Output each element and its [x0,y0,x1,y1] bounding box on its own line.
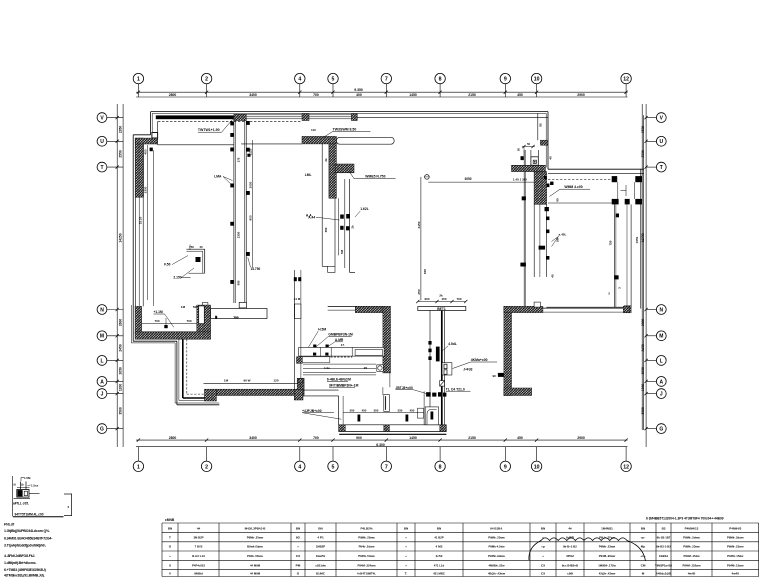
svg-text:M: M [642,571,645,575]
svg-text:G: G [100,427,104,433]
door frame in bottom room [384,395,390,412]
svg-text:A.MR: A.MR [335,338,344,342]
balcony bottom line seg2 [241,143,302,145]
svg-text:JBTJ8+c00: JBTJ8+c00 [396,386,413,390]
svg-text:LML: LML [305,173,312,177]
kitchen top hatched band [355,306,383,312]
step thick wall line horizontal [183,397,205,399]
table header cells [168,527,742,531]
svg-text:9cs B4B9+B: 9cs B4B9+B [562,563,578,567]
svg-text:4 P1: 4 P1 [317,535,324,539]
svg-text:BN: BN [641,527,645,531]
svg-text:9dBP: 9dBP [566,535,574,539]
svg-text:P4M94/3: P4M94/3 [729,527,741,531]
table body cells [169,535,745,575]
svg-text:1550: 1550 [635,236,639,243]
kitchen counter inner panel [355,350,383,356]
C wall side mark [493,373,504,378]
svg-text:TW3SWM 8.50: TW3SWM 8.50 [333,128,357,132]
svg-text:4KMa+c00: 4KMa+c00 [471,358,488,362]
svg-text:700: 700 [154,319,159,323]
svg-text:5M: 5M [556,237,560,242]
svg-text:P9Mk-.25ww: P9Mk-.25ww [358,535,375,539]
svg-text:6.300: 6.300 [376,443,385,447]
svg-text:5M: 5M [193,305,198,309]
svg-text:3400: 3400 [249,93,257,97]
stud right of column at dashed start [550,182,553,185]
rotated dims right rooms [556,198,622,289]
svg-text:8: 8 [439,77,442,83]
bottom dimension lines [136,436,628,447]
wall A stud marks [230,121,249,284]
svg-text:110: 110 [311,128,316,132]
svg-text:9k-B+1-B2: 9k-B+1-B2 [563,545,577,549]
top-right wall double line [548,169,644,173]
svg-text:T: T [169,535,171,539]
svg-text:1450: 1450 [409,436,417,440]
step dashed line [187,339,205,394]
svg-text:900: 900 [249,215,253,220]
svg-text:4M9Bk-.52w: 4M9Bk-.52w [488,563,505,567]
svg-text:L: L [100,358,103,364]
svg-text:700: 700 [456,297,461,301]
balcony dashed hidden line [158,120,302,122]
bottom band right hatched block [297,378,304,395]
svg-text:B3: B3 [662,527,666,531]
kitchen left wall hatch2 [298,379,303,383]
wall B east face line below column [334,198,336,266]
svg-text:2k: 2k [351,225,355,229]
svg-text:P9Mk-.2dww: P9Mk-.2dww [727,535,744,539]
svg-text:BN: BN [541,527,545,531]
svg-text:450: 450 [324,227,328,232]
beam pill shape [336,137,394,144]
svg-text:90: 90 [556,198,560,202]
top-right dashed line [548,178,613,180]
left wall lower hatched section [135,306,142,333]
svg-text:5: 5 [332,464,335,470]
top dimension lines [136,88,628,97]
svg-text:15.20: 15.20 [139,216,143,224]
svg-text:+: + [405,535,407,539]
label +1.1M [154,310,174,327]
svg-text:c9B: c9B [567,571,573,575]
svg-text:450: 450 [517,93,523,97]
svg-text:19w2%: 19w2% [316,554,326,558]
left room inner edge line [142,144,144,197]
legend table grid [162,523,759,577]
svg-text:3500: 3500 [641,407,645,415]
svg-text:U: U [659,139,663,145]
wall D west line [429,311,431,425]
svg-text:T: T [100,165,103,171]
kitchen right wall hatched column [383,306,391,373]
svg-text:L: L [660,358,663,364]
svg-text:PM: PM [296,563,301,567]
outer boundary top double line [151,112,548,114]
svg-text:s1B1dw: s1B1dw [315,563,326,567]
svg-text:T.: T. [405,571,408,575]
stair flight lines [618,182,635,199]
svg-text:4 M2: 4 M2 [436,545,443,549]
elevation marker circle [425,175,430,180]
bottom-left wall riser hatched [197,305,211,332]
wall step hatch block [540,140,548,145]
svg-text:CM: CM [641,563,646,567]
svg-text:A.44: A.44 [308,215,315,219]
svg-text:2350: 2350 [237,231,241,238]
svg-text:BN: BN [168,527,172,531]
svg-text:3400: 3400 [249,436,257,440]
svg-text:6 3M4BB5T132004-1.3P9 4T3MT8F4: 6 3M4BB5T132004-1.3P9 4T3MT8F4 700c04+-4… [646,517,724,521]
elevator shaft walls below [534,204,546,277]
wall B bottom cap [322,266,335,272]
socket box right of wall D [442,363,452,375]
bottom room dim chain [343,408,433,421]
bottom wall band [339,425,447,432]
rotated dims wall B [324,158,355,254]
top wall window C2 [309,115,351,119]
svg-text:1M9B4-.172w: 1M9B4-.172w [598,563,616,567]
svg-text:F.50: F.50 [164,263,170,267]
svg-text:400: 400 [356,93,362,97]
svg-text:+1.1M: +1.1M [154,310,164,314]
stair bottom blocks [612,199,643,205]
svg-text:M4J/L3PB4J-B: M4J/L3PB4J-B [245,527,267,531]
svg-text:2600: 2600 [118,319,122,327]
svg-text:N: N [100,307,104,313]
label JBTJ8 [396,386,427,394]
wall C double line [345,179,355,272]
svg-text:9k-1B-1B7: 9k-1B-1B7 [657,535,671,539]
svg-text:90 W: 90 W [243,379,250,383]
svg-text:2k: 2k [439,294,443,298]
N-line wall hatched end block [624,306,631,313]
elevator column corner stud [544,176,547,179]
svg-text:7: 7 [385,464,388,470]
floor drain symbol [377,365,384,372]
top axis bubbles row [133,73,631,97]
svg-text:+p: +p [541,545,545,549]
left wall window strip [135,197,143,306]
svg-text:14 M: 14 M [294,297,301,301]
svg-text:1M4M31: 1M4M31 [601,527,613,531]
svg-text:6-4BLE+BN@M: 6-4BLE+BN@M [327,378,351,382]
svg-text:2450: 2450 [118,344,122,352]
bottom room left wall [339,396,344,425]
svg-text:1.5xx: 1.5xx [31,484,39,488]
label 4.5dL [441,342,457,352]
room M inner line2 [142,331,197,333]
svg-text:P4LB2%: P4LB2% [360,527,372,531]
svg-text:450: 450 [362,408,367,412]
svg-text:5: 5 [332,77,335,83]
label a.45L [552,233,567,247]
wall C stud cluster [340,214,350,230]
svg-text:4+B4T19MT4L: 4+B4T19MT4L [357,571,376,575]
svg-text:44 M9M: 44 M9M [250,563,261,567]
small dim texts left room bottom [181,305,239,319]
svg-text:P9Mk-.25ww: P9Mk-.25ww [488,535,505,539]
bottom axis bubbles row [133,447,631,472]
svg-text:FNLdf: FNLdf [4,523,15,527]
svg-text:2900: 2900 [577,93,585,97]
left wall top hatched band [135,138,157,144]
svg-text:P4M94/13: P4M94/13 [685,527,699,531]
svg-text:120: 120 [273,379,278,383]
svg-text:2350: 2350 [641,126,645,134]
wall B finish line [338,198,340,255]
svg-text:a.45L: a.45L [559,233,567,237]
svg-text:45: 45 [551,274,555,278]
left dimension lines [116,104,124,447]
svg-text:94 B1B4.: 94 B1B4. [490,527,503,531]
svg-text:90: 90 [364,366,368,370]
detail left border line [12,476,14,517]
svg-text:3050: 3050 [464,177,471,181]
svg-text:P94M-.15dw: P94M-.15dw [683,554,700,558]
svg-text:B1/MC: B1/MC [316,571,325,575]
svg-text:P94k-.50ww: P94k-.50ww [247,554,264,558]
svg-text:900: 900 [356,436,362,440]
svg-text:1.62L: 1.62L [360,207,368,211]
elevator buffer box [521,150,539,165]
svg-text:17.: 17. [341,343,345,347]
svg-text:2: 2 [205,464,208,470]
bottom band offset line [339,433,446,435]
top wall column GZ2 [302,114,309,121]
svg-text:WMM 4.c00: WMM 4.c00 [564,185,582,189]
svg-text:500: 500 [350,408,355,412]
right dimension lines [641,104,648,447]
label +4JM left [0,0,1,1]
svg-text:2k: 2k [324,158,328,162]
svg-text:1200: 1200 [118,384,122,392]
svg-text:GMBPBP3N-1M: GMBPBP3N-1M [328,333,353,337]
svg-text:700: 700 [313,436,319,440]
label 1.62L [355,207,369,217]
svg-text:431 MBC: 431 MBC [433,571,445,575]
svg-text:+: + [405,545,407,549]
svg-text:900: 900 [237,280,241,285]
svg-text:1.9a: 1.9a [324,366,330,370]
kitchen dashed under-counter [331,356,353,358]
svg-text:250: 250 [417,289,421,294]
detail tiny texts [14,483,39,488]
svg-text:P9Mk-.23ww: P9Mk-.23ww [683,545,700,549]
svg-text:2050: 2050 [118,367,122,375]
detail drawing caption2 [15,512,44,516]
C wall vertical hatched [504,306,512,395]
detail top label blob [21,476,31,481]
svg-text:550: 550 [374,408,379,412]
label 4KMa [453,358,498,369]
beam over bottom-left room [211,309,267,320]
svg-text:3300: 3300 [144,186,148,193]
svg-text:10: 10 [534,77,540,83]
svg-text:BN: BN [318,527,322,531]
corridor top stud [616,214,620,218]
closet niche outline in left room [187,245,205,274]
center dim texts [464,177,527,181]
svg-text:TWTW1+1.90: TWTW1+1.90 [198,128,220,132]
svg-text:43@k-.43ww: 43@k-.43ww [599,571,616,575]
C wall top notch [534,302,540,307]
label F.50 [164,256,188,267]
svg-text:WME5 N.750: WME5 N.750 [365,174,385,178]
svg-text:4(TM9jvc83).(91.B6MB.Jd).: 4(TM9jvc83).(91.B6MB.Jd). [4,574,45,577]
revision cloud on table [529,538,646,561]
svg-text:2800: 2800 [169,436,177,440]
elevator hatched column [534,172,547,205]
svg-text:14250: 14250 [118,233,122,242]
label TWTW1 [198,120,233,133]
svg-text:+4JPJB+c00: +4JPJB+c00 [302,409,322,413]
svg-text:2.150: 2.150 [173,276,181,280]
svg-text:1M: 1M [181,305,186,309]
svg-text:P94M-.15dw: P94M-.15dw [727,554,744,558]
wall D hatch segment [436,347,440,362]
svg-text:1.40 1 325: 1.40 1 325 [513,178,528,182]
svg-text:4#: 4# [197,527,201,531]
elevator shaft mark2 [545,207,549,211]
svg-text:1.5M: 1.5M [24,476,31,480]
left room inner finish line [153,150,155,306]
kitchen top wall bar [328,306,383,310]
wall D stud marks [428,341,431,360]
balcony bottom line seg1 [158,144,234,146]
svg-text:+: + [169,554,171,558]
elevator shaft black mark [539,246,546,250]
wall B protrusion hatched [335,164,354,173]
right axis bubbles column [646,113,666,434]
svg-text:19/B1d: 19/B1d [659,554,668,558]
svg-text:4: 4 [298,464,301,470]
svg-text:700: 700 [186,319,191,323]
label 14.750 [248,258,261,271]
top wall column GZ1 [234,114,246,120]
C wall top arm end hatched block [623,306,629,312]
svg-text:TL C4 T21.0: TL C4 T21.0 [446,387,465,391]
svg-text:2150: 2150 [468,93,476,97]
labels above kitchen [309,327,354,347]
svg-text:2550: 2550 [641,150,645,158]
notes text lines [4,529,53,577]
outer offset lines bottom-left step [131,305,219,405]
svg-text:3.TtpvkjrBo3dtjpdvrBktjrkh.: 3.TtpvkjrBo3dtjpdvrBktjrkh. [4,544,46,548]
svg-text:44 M9M: 44 M9M [250,571,261,575]
svg-text:A: A [659,379,663,385]
top right step dims [517,142,536,156]
svg-text:2150: 2150 [468,436,476,440]
svg-text:BN: BN [437,527,441,531]
wall D bottom cluster [426,392,446,396]
svg-text:+: + [405,563,407,567]
svg-text:+: + [405,554,407,558]
svg-text:aPfLL c05.: aPfLL c05. [13,501,29,505]
svg-text:8G: 8G [296,535,301,539]
outer boundary left wing [133,135,150,341]
svg-text:A4Bdc3@B: A4Bdc3@B [656,571,671,575]
C wall top arm hatched [504,306,543,312]
interior wall A double lines [234,119,246,303]
svg-text:6.34M91 B34O465E34B7F72G4-: 6.34M91 B34O465E34B7F72G4- [4,536,53,540]
svg-text:450: 450 [410,408,415,412]
svg-text:BET1: BET1 [437,307,446,311]
svg-text:4c52: 4c52 [436,554,443,558]
wall B west face line [321,144,323,266]
svg-text:9F/T/BMBP3N+-1M: 9F/T/BMBP3N+-1M [329,383,358,387]
outer boundary top-left corner verticals [151,112,153,135]
bottom-left wall hatched band [135,332,211,339]
svg-text:1b: 1b [21,483,24,487]
svg-text:8: 8 [439,464,442,470]
svg-text:P9Mk-.2dww: P9Mk-.2dww [683,535,700,539]
svg-text:94TT5T1MM.4L.c00: 94TT5T1MM.4L.c00 [15,512,44,516]
svg-text:+: + [297,545,299,549]
wall step inner line [537,113,539,140]
bottom band hatched block left [339,425,346,432]
svg-text:900: 900 [424,297,429,301]
svg-text:2350: 2350 [118,126,122,134]
kitchen wall top marks [294,277,301,281]
svg-text:1M: 1M [224,379,229,383]
top wall window C1 [246,115,302,119]
center vertical dim line [417,177,427,300]
bottom-left corner hatched block [205,389,217,401]
right wall double line [641,115,644,430]
rotated dims wall A [237,157,241,285]
kitchen lower-right guide lines [383,373,390,395]
svg-text:3500: 3500 [118,407,122,415]
svg-text:9MBd: 9MBd [194,571,203,575]
svg-text:750: 750 [609,240,613,245]
svg-text:9: 9 [504,464,507,470]
svg-text:P9Mk-.23ww: P9Mk-.23ww [727,545,744,549]
label TLC4 [446,387,471,391]
top wall column GZ3 [351,114,357,121]
label +4JM/LBN bottom-left [0,0,1,1]
riser top cap [202,302,208,305]
wall A end cap [239,302,246,308]
svg-text:85: 85 [539,123,543,127]
svg-text:175: 175 [237,157,241,162]
svg-text:471 L1d: 471 L1d [434,563,445,567]
detail section box [17,490,29,498]
detail base lines [14,497,31,499]
svg-text:7 BV2: 7 BV2 [195,545,203,549]
kitchen door marker [294,297,301,319]
svg-text:2050: 2050 [249,181,253,188]
svg-text:U: U [100,139,104,145]
svg-text:1MB2P: 1MB2P [316,545,325,549]
svg-text:4#: 4# [568,527,572,531]
svg-text:4..8FkKJdBFO8.FkJ.: 4..8FkKJdBFO8.FkJ. [4,554,35,558]
svg-text:700: 700 [313,93,319,97]
kitchen left wall piece [294,270,301,389]
svg-text:600: 600 [423,269,427,274]
elevator top hatched band [512,165,546,171]
svg-text:J+F33: J+F33 [463,367,472,371]
label WMES [349,171,396,179]
svg-text:1: 1 [137,464,140,470]
svg-text:B.9.2 L1d: B.9.2 L1d [192,554,205,558]
svg-text:4B@k-.43ww: 4B@k-.43ww [488,571,506,575]
svg-text:P4P4d B3: P4P4d B3 [192,563,205,567]
svg-text:P94M-.152ww: P94M-.152ww [682,563,701,567]
top wall inner line right part [357,116,548,118]
step thick wall line vertical [182,339,184,398]
